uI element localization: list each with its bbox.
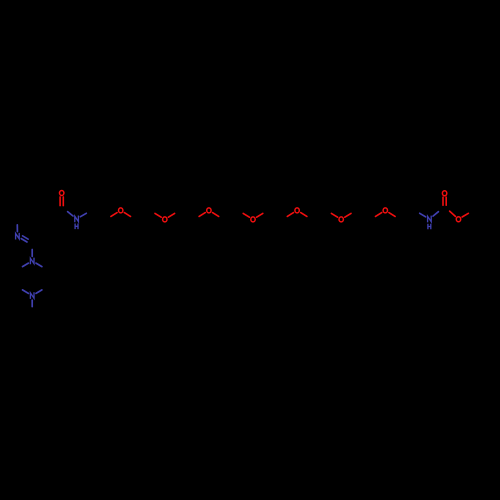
- carbamate N label: [428, 216, 432, 221]
- bond Namide-CH2 blue half: [80, 213, 86, 216]
- carbamate H label: [428, 224, 431, 228]
- amide carbonyl O label: [60, 191, 64, 196]
- carbamate carbonyl O label: [442, 191, 446, 196]
- bond Ccarbonyl-Namide blue half: [68, 212, 73, 216]
- bond Ccarbonyl-Oester red half: [450, 211, 456, 216]
- bond Ncarbamate-Ccarbonyl blue half: [433, 212, 438, 216]
- pyridine ring N1 label: [16, 234, 20, 239]
- bond N1-C6 blue half: [16, 225, 18, 232]
- bond Oester-C(tBu) red half: [462, 213, 468, 217]
- amide N label: [75, 216, 79, 221]
- ester O label: [456, 217, 460, 222]
- double bond N1=C2 inner line blue half: [23, 236, 29, 239]
- ether O (PEG unit 6) label + red half bonds: [331, 213, 351, 222]
- carbamate C=O double bond red lines: [443, 197, 446, 205]
- bond CH2-Ncarbamate blue half: [420, 213, 426, 217]
- ether O (PEG unit 4) label + red half bonds: [243, 213, 263, 222]
- ether O (PEG unit 5) label + red half bonds: [287, 208, 307, 217]
- amide C=O double bond red lines: [60, 197, 63, 206]
- ether O (PEG unit 1) label + red half bonds: [111, 208, 131, 217]
- ether O (PEG unit 7) label + red half bonds: [376, 208, 396, 217]
- amide H label: [75, 224, 78, 228]
- piperazine N4 label + blue half bonds + N-methyl stub: [23, 290, 42, 307]
- ether O (PEG unit 2) label + red half bonds: [155, 213, 175, 222]
- piperazine N1 label + blue half bonds: [23, 250, 42, 267]
- double bond N1=C2 main line blue half: [21, 239, 27, 242]
- ether O (PEG unit 3) label + red half bonds: [199, 208, 219, 217]
